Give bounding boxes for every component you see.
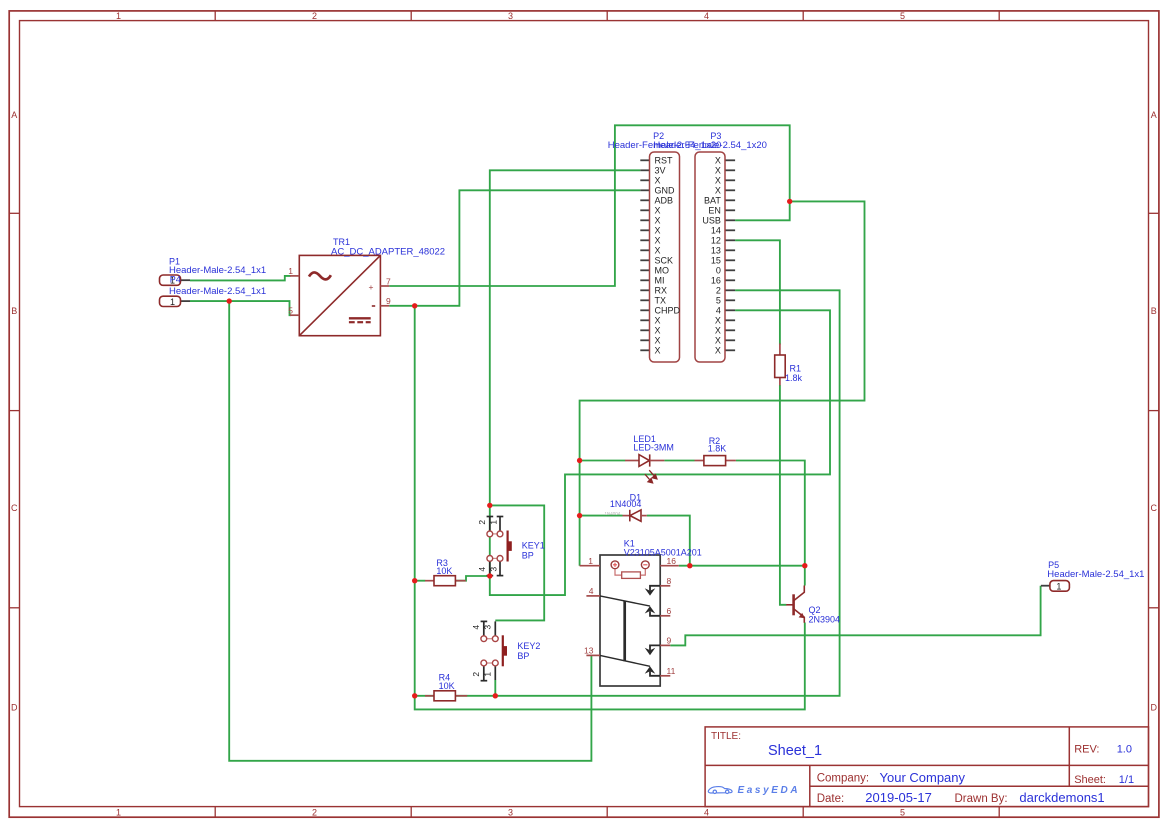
- junction node KEY2 bottom: [493, 693, 498, 698]
- svg-text:EN: EN: [708, 206, 721, 216]
- svg-text:TX: TX: [655, 296, 667, 306]
- svg-text:C: C: [1150, 503, 1157, 513]
- wire R3 left: [415, 580, 426, 582]
- svg-text:B: B: [1151, 306, 1157, 316]
- svg-text:REV:: REV:: [1074, 744, 1099, 756]
- svg-text:6: 6: [667, 606, 672, 616]
- svg-text:Header-Male-2.54_1x1: Header-Male-2.54_1x1: [169, 286, 266, 297]
- wire KEY1 top to KEY2 pin3: [490, 505, 544, 620]
- junction node TR1 pin9: [412, 303, 417, 308]
- svg-text:3: 3: [508, 11, 513, 21]
- junction node Q2 collector: [802, 563, 807, 568]
- wire negative rail down and to Q2 emitter: [415, 306, 805, 710]
- junction node D1 right / K1 pin16: [687, 563, 692, 568]
- junction node D1 left: [577, 513, 582, 518]
- svg-text:Header-Male-2.54_1x1: Header-Male-2.54_1x1: [1047, 569, 1144, 580]
- svg-text:X: X: [655, 346, 661, 356]
- svg-text:LED-3MM: LED-3MM: [633, 442, 674, 452]
- junction node USB column: [787, 199, 792, 204]
- svg-text:darckdemons1: darckdemons1: [1019, 790, 1104, 805]
- ruler letters right: [1150, 110, 1157, 712]
- junction node LED1 left: [577, 458, 582, 463]
- AC/DC adapter TR1: [290, 255, 389, 335]
- svg-text:1/1: 1/1: [1119, 774, 1134, 786]
- svg-text:X: X: [655, 316, 661, 326]
- svg-text:X: X: [715, 156, 721, 166]
- svg-text:7: 7: [386, 276, 391, 286]
- wire TR1 pin7 to P3 USB: [389, 125, 789, 286]
- svg-text:13: 13: [711, 246, 721, 256]
- svg-text:USB: USB: [702, 216, 721, 226]
- svg-text:Sheet:: Sheet:: [1074, 774, 1106, 786]
- svg-text:1.8K: 1.8K: [708, 443, 727, 453]
- svg-text:1: 1: [288, 266, 293, 276]
- svg-text:MO: MO: [655, 266, 670, 276]
- svg-text:X: X: [655, 336, 661, 346]
- resistor R2: [695, 456, 736, 466]
- svg-text:X: X: [655, 226, 661, 236]
- svg-text:X: X: [655, 246, 661, 256]
- svg-text:A: A: [1151, 110, 1157, 120]
- svg-text:C: C: [11, 503, 18, 513]
- wire collector junction down: [804, 566, 806, 586]
- push button KEY1: [477, 517, 512, 576]
- wire KEY2 pin1 down to R4 row: [494, 680, 496, 696]
- wire P3 pin2 to R4 row rail: [415, 290, 840, 696]
- svg-text:2: 2: [477, 520, 487, 525]
- wire LED1 row left: [580, 460, 626, 462]
- svg-text:V23105A5001A201: V23105A5001A201: [624, 547, 702, 557]
- svg-text:4: 4: [716, 306, 721, 316]
- svg-text:D: D: [1150, 702, 1157, 712]
- resistor R1: [775, 344, 786, 386]
- ruler letters left: [11, 110, 18, 712]
- svg-text:3: 3: [482, 625, 492, 630]
- LED LED1: [625, 454, 664, 483]
- svg-text:P4: P4: [170, 275, 181, 285]
- junction node R3 left: [412, 578, 417, 583]
- svg-text:X: X: [715, 186, 721, 196]
- svg-text:Sheet_1: Sheet_1: [768, 743, 822, 759]
- svg-text:1: 1: [170, 297, 175, 307]
- wire P4 to TR1 pin5: [190, 301, 291, 315]
- wire TR1 pin9 to P2 GND: [389, 190, 640, 305]
- wire P2 3V to KEY1 column: [490, 170, 641, 576]
- svg-text:BAT: BAT: [704, 196, 721, 206]
- EasyEDA logo car icon: [708, 787, 732, 794]
- svg-text:9: 9: [667, 636, 672, 646]
- svg-text:1: 1: [588, 556, 593, 566]
- svg-text:+: +: [369, 282, 374, 292]
- connector P1: [160, 275, 191, 286]
- ruler numbers top: [116, 11, 905, 21]
- svg-text:BP: BP: [517, 651, 529, 661]
- svg-text:SCK: SCK: [655, 256, 674, 266]
- transistor Q2: [786, 586, 805, 623]
- svg-text:TITLE:: TITLE:: [711, 731, 741, 742]
- header P3: [695, 152, 735, 362]
- svg-text:X: X: [715, 166, 721, 176]
- wire R2 to collector junction: [736, 461, 805, 566]
- wire LED1 to R2: [664, 460, 694, 462]
- connector P5: [1041, 581, 1070, 592]
- svg-text:2019-05-17: 2019-05-17: [865, 790, 932, 805]
- svg-text:15: 15: [711, 256, 721, 266]
- svg-text:14: 14: [711, 226, 721, 236]
- svg-text:4: 4: [471, 625, 481, 630]
- svg-text:AC_DC_ADAPTER_48022: AC_DC_ADAPTER_48022: [331, 246, 445, 257]
- wire K1 pin16 to Q2 collector: [679, 565, 805, 567]
- svg-text:D: D: [11, 702, 18, 712]
- title block: [705, 727, 1148, 807]
- svg-text:R1: R1: [790, 364, 802, 374]
- svg-text:X: X: [655, 236, 661, 246]
- svg-text:X: X: [655, 216, 661, 226]
- svg-text:2: 2: [312, 11, 317, 21]
- resistor R4: [425, 691, 467, 701]
- svg-text:X: X: [715, 326, 721, 336]
- svg-text:5: 5: [288, 306, 293, 316]
- svg-text:Drawn By:: Drawn By:: [955, 793, 1008, 805]
- svg-text:5: 5: [716, 296, 721, 306]
- svg-text:X: X: [715, 346, 721, 356]
- svg-text:3: 3: [508, 807, 513, 817]
- wire D1 row left: [580, 515, 623, 517]
- svg-text:4: 4: [589, 586, 594, 596]
- svg-text:Company:: Company:: [817, 773, 869, 785]
- svg-text:X: X: [655, 176, 661, 186]
- diode D1: [605, 510, 647, 522]
- ruler ticks bottom: [215, 807, 999, 818]
- svg-text:X: X: [655, 326, 661, 336]
- svg-text:KEY2: KEY2: [517, 641, 540, 651]
- svg-text:RST: RST: [655, 156, 674, 166]
- wire KEY1 bottom loop to P3 pin4: [490, 310, 830, 595]
- svg-text:CHPD: CHPD: [655, 306, 681, 316]
- svg-text:GND: GND: [655, 186, 676, 196]
- svg-text:X: X: [715, 316, 721, 326]
- svg-text:8: 8: [667, 576, 672, 586]
- svg-text:5: 5: [900, 807, 905, 817]
- svg-text:ADB: ADB: [655, 196, 674, 206]
- svg-text:EasyEDA: EasyEDA: [738, 785, 801, 796]
- push button KEY2: [471, 621, 507, 680]
- svg-text:X: X: [655, 206, 661, 216]
- wire P3 pin12 to R1: [735, 240, 780, 344]
- svg-text:Your Company: Your Company: [880, 770, 966, 785]
- svg-text:X: X: [715, 176, 721, 186]
- svg-text:BP: BP: [522, 551, 534, 561]
- svg-text:4: 4: [704, 807, 709, 817]
- svg-text:13: 13: [584, 646, 594, 656]
- ruler numbers bottom: [116, 807, 905, 817]
- wire P1 to TR1 pin1: [190, 276, 291, 281]
- wire USB junction to LED / D1 / K1 pin1 column: [580, 201, 865, 565]
- wire K1 pin9 to P5: [670, 586, 1040, 646]
- svg-text:RX: RX: [655, 286, 668, 296]
- junction node KEY1 bottom: [487, 573, 492, 578]
- header P2: [640, 152, 680, 362]
- svg-text:B: B: [11, 306, 17, 316]
- ruler ticks right: [1149, 213, 1159, 608]
- relay K1: [580, 555, 679, 686]
- svg-text:2: 2: [471, 672, 481, 677]
- svg-text:X: X: [715, 336, 721, 346]
- svg-text:2: 2: [312, 807, 317, 817]
- wire R1 to Q2 base: [780, 385, 787, 605]
- svg-text:1: 1: [488, 520, 498, 525]
- ruler ticks left: [9, 213, 19, 608]
- connector P4: [160, 296, 191, 307]
- svg-text:1N4004: 1N4004: [610, 499, 642, 509]
- wire D1 to K1 pin16 junction: [647, 516, 690, 566]
- svg-text:1: 1: [116, 807, 121, 817]
- svg-text:5: 5: [900, 11, 905, 21]
- svg-text:12: 12: [711, 236, 721, 246]
- svg-text:Date:: Date:: [817, 793, 845, 805]
- svg-text:1.8k: 1.8k: [785, 373, 803, 383]
- svg-text:4: 4: [477, 567, 487, 572]
- svg-text:10K: 10K: [439, 681, 455, 691]
- junction node P4/pin5: [227, 298, 232, 303]
- svg-text:1: 1: [482, 672, 492, 677]
- svg-text:1.0: 1.0: [1117, 744, 1132, 756]
- svg-text:3V: 3V: [655, 166, 666, 176]
- svg-text:1: 1: [116, 11, 121, 21]
- svg-text:10K: 10K: [436, 566, 452, 576]
- junction node KEY1 top: [487, 503, 492, 508]
- ruler ticks top: [215, 11, 999, 21]
- svg-text:0: 0: [716, 266, 721, 276]
- svg-text:A: A: [11, 110, 17, 120]
- svg-text:MI: MI: [655, 276, 665, 286]
- svg-text:Header-Male-2.54_1x1: Header-Male-2.54_1x1: [169, 265, 266, 276]
- svg-text:4: 4: [704, 11, 709, 21]
- svg-text:Header-Female-2.54_1x20: Header-Female-2.54_1x20: [653, 140, 767, 151]
- svg-text:KEY1: KEY1: [522, 541, 545, 551]
- svg-text:1N4004: 1N4004: [605, 511, 621, 516]
- svg-text:9: 9: [386, 296, 391, 306]
- svg-text:1: 1: [1056, 581, 1061, 591]
- svg-text:11: 11: [667, 666, 676, 676]
- svg-text:3: 3: [488, 567, 498, 572]
- svg-text:2N3904: 2N3904: [809, 614, 841, 624]
- wire P4 net down to K1 pin13: [229, 301, 591, 761]
- svg-text:16: 16: [711, 276, 721, 286]
- wire R3 jog to KEY1 bottom junction: [455, 576, 489, 581]
- svg-text:2: 2: [716, 286, 721, 296]
- junction node R4 left: [412, 693, 417, 698]
- resistor R3: [425, 576, 466, 586]
